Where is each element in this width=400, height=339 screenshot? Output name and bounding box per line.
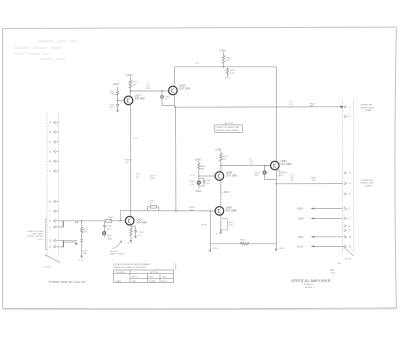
svg-text:10K: 10K	[226, 60, 230, 62]
svg-text:AUTO: AUTO	[162, 280, 168, 283]
svg-text:C613: C613	[139, 232, 145, 234]
svg-text:NORM: NORM	[149, 281, 155, 283]
svg-text:+6.3V: +6.3V	[297, 245, 304, 248]
svg-text:+100V: +100V	[112, 83, 119, 86]
svg-text:DEFLECTION: DEFLECTION	[361, 183, 375, 185]
svg-text:PLATE: PLATE	[365, 185, 372, 188]
svg-text:DLY'D: DLY'D	[150, 175, 157, 177]
svg-text:+225V: +225V	[278, 248, 285, 250]
svg-text:INP AMP: INP AMP	[137, 221, 147, 224]
svg-text:DEFLECTION: DEFLECTION	[361, 107, 375, 109]
svg-text:10K: 10K	[190, 210, 194, 212]
svg-text:R612: R612	[83, 229, 89, 231]
svg-text:+235: +235	[289, 106, 293, 108]
svg-text:HEATER POWER: HEATER POWER	[27, 230, 44, 233]
svg-text:R518A: R518A	[125, 158, 132, 161]
svg-text:C562: C562	[206, 180, 212, 182]
svg-text:UNDER FOLLOWING CONDITIONS:: UNDER FOLLOWING CONDITIONS:	[113, 267, 147, 269]
svg-text:2.2K: 2.2K	[228, 225, 233, 227]
svg-text:D: D	[49, 150, 51, 154]
svg-text:R543: R543	[255, 172, 261, 174]
svg-text:MODEL 2: MODEL 2	[305, 287, 315, 289]
svg-text:C610: C610	[82, 251, 88, 253]
svg-text:R514: R514	[132, 82, 138, 84]
svg-text:R652: R652	[228, 222, 234, 224]
svg-text:UPPER CRT: UPPER CRT	[361, 105, 374, 107]
svg-text:-150V: -150V	[297, 236, 304, 239]
svg-text:R611: R611	[107, 236, 113, 238]
svg-text:INPUT: INPUT	[132, 277, 139, 279]
svg-text:-8.2V: -8.2V	[127, 242, 133, 244]
svg-text:GAIN: GAIN	[107, 237, 113, 240]
svg-text:+235: +235	[249, 163, 253, 165]
svg-text:+225V: +225V	[219, 50, 226, 53]
svg-text:R561: R561	[190, 181, 196, 183]
svg-text:+100V: +100V	[194, 158, 201, 161]
svg-text:CAUTION: CAUTION	[224, 122, 234, 125]
svg-text:H: H	[49, 200, 51, 204]
svg-text:TRIG: TRIG	[162, 277, 167, 279]
svg-text:R656: R656	[240, 239, 246, 241]
svg-text:10K: 10K	[223, 159, 227, 161]
svg-text:R544: R544	[281, 172, 287, 174]
svg-text:+75: +75	[195, 63, 198, 65]
svg-text:PLUG: PLUG	[45, 267, 51, 269]
svg-text:SETTING: SETTING	[150, 272, 159, 274]
svg-text:2.5K: 2.5K	[190, 184, 195, 186]
svg-text:C: C	[49, 140, 51, 144]
svg-text:OUT DRV: OUT DRV	[226, 175, 237, 178]
svg-text:47K: 47K	[125, 162, 129, 164]
svg-text:PLATE: PLATE	[365, 109, 372, 112]
svg-text:DUAL TRACE: DUAL TRACE	[31, 233, 44, 236]
svg-text:C640: C640	[149, 200, 155, 202]
svg-text:47K: 47K	[132, 84, 136, 86]
svg-text:1.5K: 1.5K	[230, 73, 235, 75]
svg-text:+62.7V: +62.7V	[224, 78, 232, 80]
svg-text:A: A	[49, 120, 51, 124]
svg-text:R564: R564	[223, 156, 229, 158]
svg-text:OUT AMP: OUT AMP	[281, 163, 293, 166]
svg-text:N: N	[49, 245, 51, 249]
svg-text:TRACE LIGHTING: TRACE LIGHTING	[27, 235, 44, 238]
svg-text:LOWER CRT: LOWER CRT	[361, 180, 374, 182]
svg-text:-150V: -150V	[195, 190, 202, 193]
svg-text:C612: C612	[107, 226, 113, 228]
svg-text:+225V: +225V	[126, 74, 133, 77]
svg-text:39K: 39K	[200, 169, 204, 171]
svg-text:SWEEP B: SWEEP B	[304, 284, 314, 286]
svg-text:+100V: +100V	[222, 191, 229, 194]
svg-text:+300V: +300V	[297, 208, 304, 211]
svg-text:6.8K: 6.8K	[83, 232, 88, 234]
svg-text:-6.3V: -6.3V	[78, 260, 84, 262]
svg-text:GAIN CONTROL: GAIN CONTROL	[110, 252, 126, 255]
svg-text:ADJUST: ADJUST	[110, 250, 119, 253]
svg-text:M: M	[49, 239, 51, 243]
svg-text:OUT AMP: OUT AMP	[226, 209, 238, 212]
svg-text:C533: C533	[165, 96, 171, 98]
svg-text:CONTROL: CONTROL	[116, 272, 127, 274]
svg-text:DLY'D: DLY'D	[201, 224, 208, 226]
svg-text:VERTICAL AMPLIFIER: VERTICAL AMPLIFIER	[291, 279, 331, 283]
svg-text:R644: R644	[190, 207, 196, 209]
svg-text:220K: 220K	[111, 94, 117, 96]
svg-text:+35: +35	[136, 178, 139, 180]
svg-text:OUT DRV: OUT DRV	[179, 87, 190, 90]
svg-text:GAIN: GAIN	[116, 280, 121, 283]
svg-text:+235: +235	[290, 179, 294, 181]
svg-text:E: E	[49, 159, 51, 163]
svg-text:AAD: AAD	[331, 269, 336, 272]
svg-text:R562: R562	[200, 166, 206, 168]
svg-text:GND: GND	[149, 277, 154, 279]
svg-text:+125V: +125V	[297, 217, 304, 220]
svg-text:SWP: SWP	[150, 178, 156, 180]
svg-text:UNITS: UNITS	[38, 239, 45, 241]
svg-text:R546: R546	[311, 178, 317, 180]
svg-text:R541: R541	[230, 70, 236, 72]
svg-text:+235: +235	[146, 88, 150, 90]
svg-text:50K: 50K	[255, 175, 259, 177]
svg-text:R540: R540	[226, 57, 232, 59]
svg-text:THESE VOLTAGES MAY: THESE VOLTAGES MAY	[216, 126, 240, 129]
svg-text:TYPE 503 PLUG IN: TYPE 503 PLUG IN	[48, 280, 86, 284]
svg-text:PLUG: PLUG	[345, 258, 351, 260]
svg-text:-150V: -150V	[212, 248, 218, 250]
svg-text:B: B	[49, 130, 51, 134]
svg-text:INP AMP: INP AMP	[135, 98, 145, 101]
svg-text:VOLTAGE READINGS WERE OBTAINED: VOLTAGE READINGS WERE OBTAINED	[113, 263, 151, 266]
svg-text:R613: R613	[108, 217, 114, 219]
svg-text:10K: 10K	[240, 242, 244, 244]
svg-text:CHANGE (SEE CHART): CHANGE (SEE CHART)	[216, 129, 239, 132]
svg-text:+62.7: +62.7	[215, 233, 221, 235]
svg-text:+225V: +225V	[215, 149, 222, 152]
svg-text:K: K	[49, 219, 51, 223]
